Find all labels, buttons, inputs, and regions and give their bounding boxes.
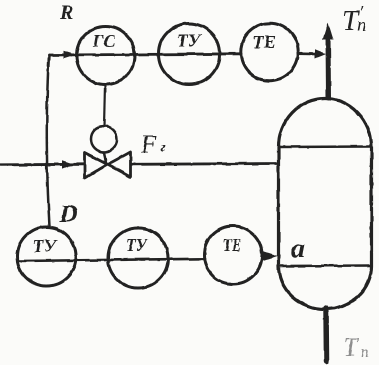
svg-text:F: F (140, 131, 157, 158)
wire: main gas pipe left of valve (0, 163, 84, 166)
instrument circle TY top row middle (159, 24, 220, 85)
wire: top horizontal line through TC and TY circles (49, 54, 241, 55)
column internal bottom tangent line (279, 264, 372, 267)
svg-text:а: а (291, 234, 305, 265)
instrument circle TE top row right (241, 23, 298, 80)
svg-text:ТЕ: ТЕ (252, 32, 276, 52)
arrow up on riser (323, 22, 334, 40)
svg-text:ТУ: ТУ (33, 236, 58, 256)
svg-text:R: R (59, 2, 73, 24)
arrow on gas pipe (62, 160, 74, 168)
wire: bottom horizontal line through TY TY circles (18, 259, 205, 261)
wire: bottom stub from TE to column with arrow (262, 255, 269, 258)
wire: valve stem (104, 152, 106, 163)
valve actuator circle (91, 126, 117, 152)
control valve body left triangle (85, 153, 108, 179)
instrument circle TC (regulator R) (77, 27, 135, 85)
svg-text:ГС: ГС (92, 31, 116, 51)
svg-text:ТЕ: ТЕ (223, 235, 241, 255)
wire: top line stub from TE circle to riser (298, 52, 318, 55)
arrow into column at point a (263, 251, 278, 260)
svg-text:ТУ: ТУ (177, 31, 202, 51)
instrument circle TY bottom row left (17, 227, 76, 286)
instrument circle TY bottom row middle (108, 228, 168, 288)
bottom product pipe (323, 308, 329, 361)
control valve body right triangle (108, 152, 131, 177)
column internal top tangent line (279, 145, 372, 148)
instrument circle TE bottom row right (204, 226, 262, 284)
svg-text:п: п (361, 342, 370, 361)
svg-text:D: D (59, 201, 78, 228)
svg-text:Т: Т (343, 333, 359, 362)
column vessel shell (279, 98, 372, 309)
wire: left vertical feedback line (47, 55, 50, 227)
wire: stem from TC circle down to valve actuator (104, 85, 105, 127)
svg-text:п: п (357, 15, 367, 36)
arrow into top riser pipe (315, 49, 326, 58)
top product pipe (riser) (326, 36, 332, 98)
svg-text:г: г (161, 140, 167, 156)
svg-text:ТУ: ТУ (126, 235, 149, 255)
wire: gas pipe from valve to column (131, 162, 278, 166)
arrow into TC circle (node input) (64, 51, 77, 59)
